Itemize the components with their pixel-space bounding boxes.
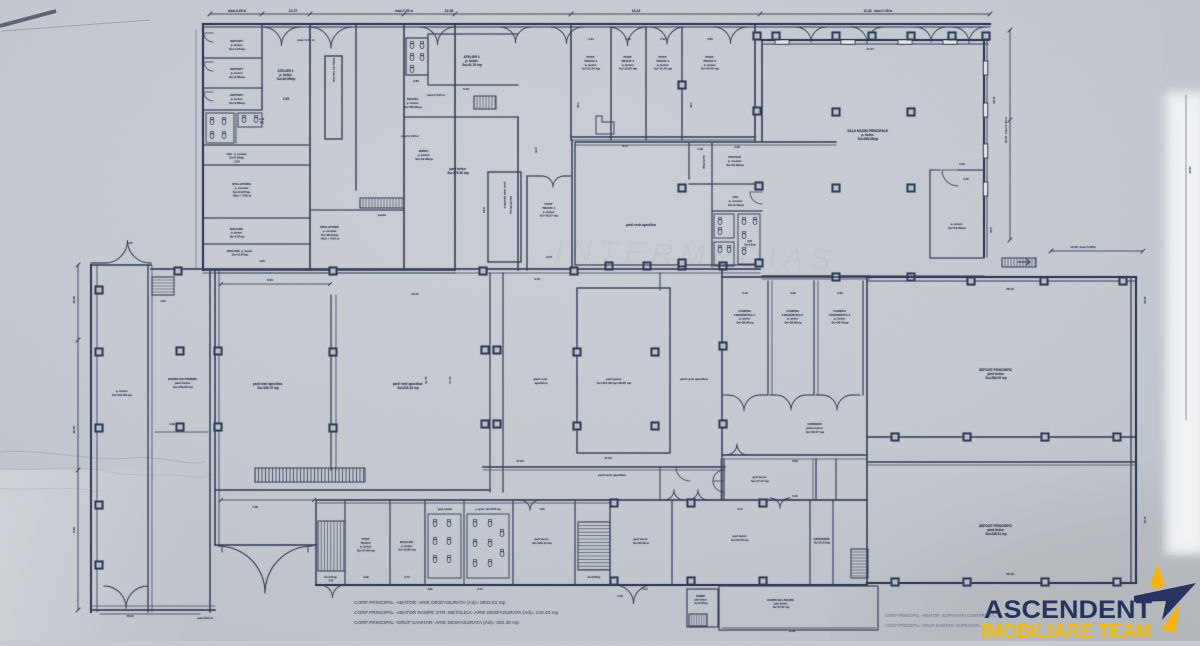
- white paper edge right side: [0, 0, 1, 1]
- pale left-bottom paper area: [0, 470, 190, 641]
- faint pencil squiggles bottom-left: [0, 451, 205, 463]
- logo star navy swoosh arrow: [1134, 583, 1196, 620]
- grey bottom-right corner shading: [830, 460, 1200, 641]
- svg-text:ASCENDENT: ASCENDENT: [984, 596, 1152, 624]
- svg-text:IMOBILIARE TEAM: IMOBILIARE TEAM: [981, 621, 1151, 641]
- scan mark top-left corner: [0, 11, 56, 26]
- darker right edge band: [1162, 0, 1200, 555]
- logo star lower yellow triangle: [1161, 603, 1179, 633]
- logo star upper yellow kite: [1150, 563, 1164, 590]
